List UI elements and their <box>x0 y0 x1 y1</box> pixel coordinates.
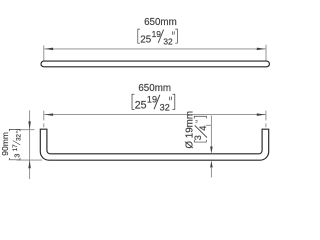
svg-text:3: 3 <box>193 135 203 140</box>
svg-text:650mm: 650mm <box>144 17 177 28</box>
svg-text:3: 3 <box>13 154 22 158</box>
svg-text:32: 32 <box>16 133 23 140</box>
svg-text:Ø 19mm: Ø 19mm <box>185 111 196 149</box>
svg-text:90mm: 90mm <box>0 132 10 156</box>
svg-text:17: 17 <box>12 144 19 151</box>
svg-text:19: 19 <box>147 95 157 105</box>
svg-text:25: 25 <box>140 34 151 45</box>
svg-text:19: 19 <box>152 29 162 39</box>
svg-text:25: 25 <box>135 100 147 112</box>
svg-text:32: 32 <box>160 103 170 113</box>
svg-text:650mm: 650mm <box>138 83 171 94</box>
svg-text:32: 32 <box>163 36 173 46</box>
